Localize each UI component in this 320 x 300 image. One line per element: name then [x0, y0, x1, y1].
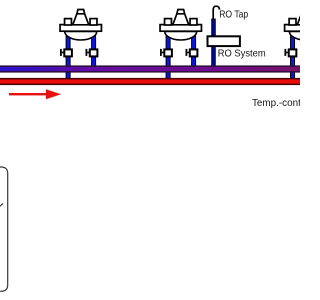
wire: sink2 cold drop pipe [192, 32, 196, 70]
valve S2 hot [160, 49, 172, 57]
sink S2 [160, 10, 201, 41]
valve S1 hot [60, 49, 72, 57]
wire: sink1 cold drop pipe [92, 32, 96, 70]
sink S3 (partially visible) [285, 10, 320, 41]
svg-text:Temp.-controlled: Temp.-controlled [252, 98, 300, 109]
valve S1 cold [86, 49, 98, 57]
pipe: cold water main [0, 65, 300, 72]
svg-text:RO System: RO System [218, 48, 266, 59]
valve S2 cold [186, 49, 198, 57]
wire: sink3 hot drop pipe [291, 32, 295, 81]
tank (partially visible) [0, 167, 8, 291]
RO tap spout [213, 6, 219, 20]
sink S1 [60, 10, 101, 41]
wire: RO feed pipe [212, 19, 216, 70]
pipe: hot water main [0, 78, 300, 85]
flow arrow [9, 89, 61, 99]
wire: sink1 hot drop pipe [66, 32, 70, 81]
svg-text:RO Tap: RO Tap [219, 10, 248, 21]
wire: sink2 hot drop pipe [166, 32, 170, 81]
valve S3 hot [284, 49, 296, 57]
RO System box U1 [208, 36, 240, 46]
